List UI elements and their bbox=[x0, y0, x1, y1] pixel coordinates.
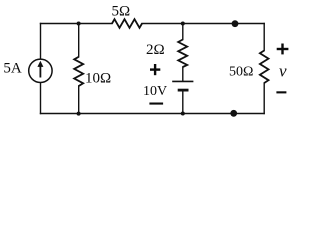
current source I1 circle bbox=[29, 59, 52, 82]
wire top-left segment bbox=[41, 23, 113, 25]
battery V1 short plate (negative) bbox=[178, 89, 189, 92]
wire right below 50 ohm bbox=[263, 83, 265, 114]
terminal node bottom (big dot) bbox=[230, 110, 237, 117]
wire 10ohm branch top bbox=[78, 24, 80, 57]
svg-text:10V: 10V bbox=[143, 84, 167, 99]
junction node middle branch top bbox=[181, 22, 185, 26]
wire left below source bbox=[40, 82, 42, 113]
junction node over 10ohm top bbox=[77, 22, 81, 26]
junction node middle branch bottom bbox=[181, 112, 185, 116]
voltage v plus sign bbox=[277, 44, 289, 55]
svg-text:5A: 5A bbox=[3, 60, 22, 76]
resistor 5ohm (zigzag) bbox=[112, 19, 142, 28]
svg-text:2Ω: 2Ω bbox=[146, 42, 165, 58]
terminal node top (big dot) bbox=[232, 20, 239, 27]
battery plus sign bbox=[150, 64, 160, 75]
wire right above 50 ohm bbox=[263, 24, 265, 51]
svg-text:v: v bbox=[279, 62, 287, 81]
junction node 10ohm bottom bbox=[77, 112, 81, 116]
battery minus bar under 10V bbox=[149, 103, 163, 105]
resistor 2ohm (zigzag) bbox=[178, 40, 187, 68]
wire middle branch below battery bbox=[182, 91, 184, 114]
wire middle branch between resistor and battery bbox=[182, 67, 184, 81]
svg-text:50Ω: 50Ω bbox=[229, 64, 253, 79]
voltage v minus sign bbox=[276, 91, 286, 93]
wire top-right segment bbox=[142, 23, 264, 25]
resistor 10ohm (zigzag) bbox=[74, 57, 83, 86]
current source arrow bbox=[39, 66, 41, 78]
wire bottom bbox=[41, 113, 265, 115]
wire 10ohm branch bottom bbox=[78, 86, 80, 114]
wire middle branch top bbox=[182, 24, 184, 40]
resistor 50ohm (zigzag) bbox=[260, 51, 269, 84]
svg-text:5Ω: 5Ω bbox=[112, 3, 131, 19]
svg-text:10Ω: 10Ω bbox=[85, 71, 111, 87]
battery V1 long plate (positive) bbox=[172, 80, 193, 82]
wire left above source bbox=[40, 24, 42, 60]
